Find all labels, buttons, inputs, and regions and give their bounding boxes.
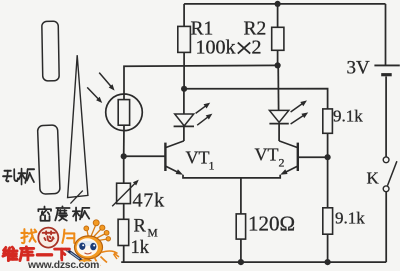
- wire emitter rail to 120R: [240, 178, 242, 214]
- wire top rail to R1: [183, 4, 185, 27]
- node top-rail/R2 junction: [275, 1, 281, 7]
- resistor RM: [118, 219, 129, 245]
- label VT1: [186, 148, 215, 173]
- watermark mascot: [65, 220, 119, 266]
- wire top rail to R2: [277, 4, 279, 27]
- label RM: [134, 217, 158, 240]
- wire photoresistor bottom to node A: [123, 125, 125, 156]
- svg-text:1: 1: [209, 159, 215, 173]
- watermark zhao-xin-pian text: [21, 229, 36, 243]
- resistor 120R: [236, 214, 245, 239]
- label VT2: [255, 145, 285, 170]
- svg-text:9.1k: 9.1k: [335, 209, 365, 228]
- node F junction: [238, 259, 244, 265]
- LED D2 emission arrows: [291, 102, 305, 112]
- label kongban (orifice plate): [3, 169, 18, 181]
- svg-text:VT: VT: [255, 145, 279, 165]
- svg-text:2: 2: [252, 37, 262, 59]
- svg-text:K: K: [367, 169, 380, 188]
- resistor R1: [178, 26, 191, 52]
- node D junction: [325, 154, 331, 160]
- watermark weiku-yixia text: [3, 247, 17, 260]
- svg-text:www.dzsc.com: www.dzsc.com: [27, 260, 99, 271]
- bottom rail: [121, 261, 386, 263]
- LED D1 emission arrows: [196, 105, 208, 114]
- svg-text:2: 2: [279, 156, 285, 170]
- orifice plate upper: [42, 21, 59, 81]
- svg-text:120Ω: 120Ω: [248, 212, 295, 236]
- wire photoresistor top to node C: [124, 65, 278, 99]
- orifice plate lower: [37, 125, 60, 194]
- top supply rail: [184, 3, 385, 5]
- node B junction: [181, 86, 187, 92]
- density board wedge: [68, 55, 88, 197]
- wire 120R to bottom rail: [240, 239, 242, 262]
- node E junction: [325, 259, 331, 265]
- label midubAn (density board): [38, 206, 51, 220]
- wire 9.1k upper to node D: [327, 133, 329, 157]
- wire switch to bottom rail: [385, 192, 387, 262]
- wire R1 bottom to node B: [183, 52, 185, 88]
- LED D1: [174, 114, 194, 126]
- transistor VT2: [279, 141, 298, 175]
- svg-text:9.1k: 9.1k: [333, 107, 363, 126]
- wire LED D2 to VT2 collector: [278, 124, 280, 141]
- wire VT2 base to node D: [298, 156, 328, 158]
- wire node B to LED D1: [183, 89, 185, 114]
- svg-text:M: M: [148, 228, 158, 240]
- svg-text:100k: 100k: [196, 37, 236, 59]
- wire R2 bottom to node C: [277, 50, 279, 65]
- node A junction: [121, 153, 127, 159]
- resistor 9.1k lower: [323, 208, 333, 234]
- wire node A to 47k: [123, 156, 125, 183]
- switch K: [383, 157, 397, 192]
- svg-text:R: R: [134, 217, 147, 237]
- light arrows into photoresistor: [99, 73, 112, 88]
- svg-text:1k: 1k: [131, 238, 150, 258]
- leader line to density board label: [70, 191, 82, 204]
- svg-text:47k: 47k: [133, 190, 165, 212]
- svg-text:VT: VT: [186, 148, 210, 168]
- wire battery to switch: [385, 77, 387, 157]
- photoresistor RG: [106, 94, 143, 131]
- svg-text:3V: 3V: [347, 58, 371, 79]
- wire top rail to battery: [385, 4, 387, 65]
- resistor 9.1k upper: [323, 109, 333, 133]
- wire LED D1 to VT1 collector: [183, 126, 185, 141]
- wire 47k to RM: [123, 204, 125, 220]
- emitter rail wire: [183, 175, 280, 178]
- LED D2: [269, 110, 288, 123]
- wire node D to 9.1k lower: [327, 157, 329, 208]
- potentiometer 47k: [112, 180, 139, 207]
- wire node A to VT1 base: [124, 155, 166, 157]
- battery BT 3V: [374, 65, 399, 74]
- transistor VT1: [165, 141, 184, 175]
- wire 9.1k lower to bottom rail: [327, 234, 329, 262]
- wire node C to LED D2: [277, 65, 279, 110]
- wire RM to bottom rail: [123, 246, 125, 263]
- node C junction: [275, 62, 281, 68]
- resistor R2: [272, 27, 284, 50]
- wire node B to upper 9.1k: [184, 89, 328, 109]
